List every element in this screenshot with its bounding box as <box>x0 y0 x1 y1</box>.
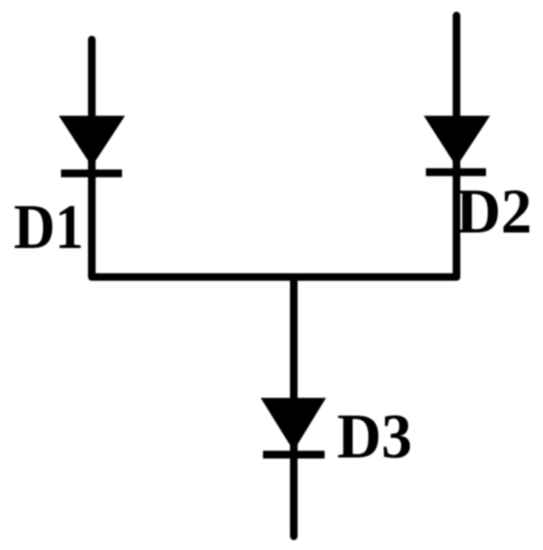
diode D2 triangle (anode) <box>424 116 490 167</box>
svg-text:D1: D1 <box>14 191 84 262</box>
wire: middle vertical to D3 <box>290 280 298 537</box>
svg-text:D2: D2 <box>456 176 532 247</box>
diode D3 triangle (anode) <box>261 398 326 451</box>
diode D1 triangle (anode) <box>59 116 125 167</box>
svg-text:D3: D3 <box>337 401 412 472</box>
diode D3 cathode bar <box>263 451 325 459</box>
diode D2 cathode bar <box>426 168 486 176</box>
wire: left vertical, bottom horizontal bus, right vertical <box>92 16 457 278</box>
diode D1 cathode bar <box>61 169 122 177</box>
